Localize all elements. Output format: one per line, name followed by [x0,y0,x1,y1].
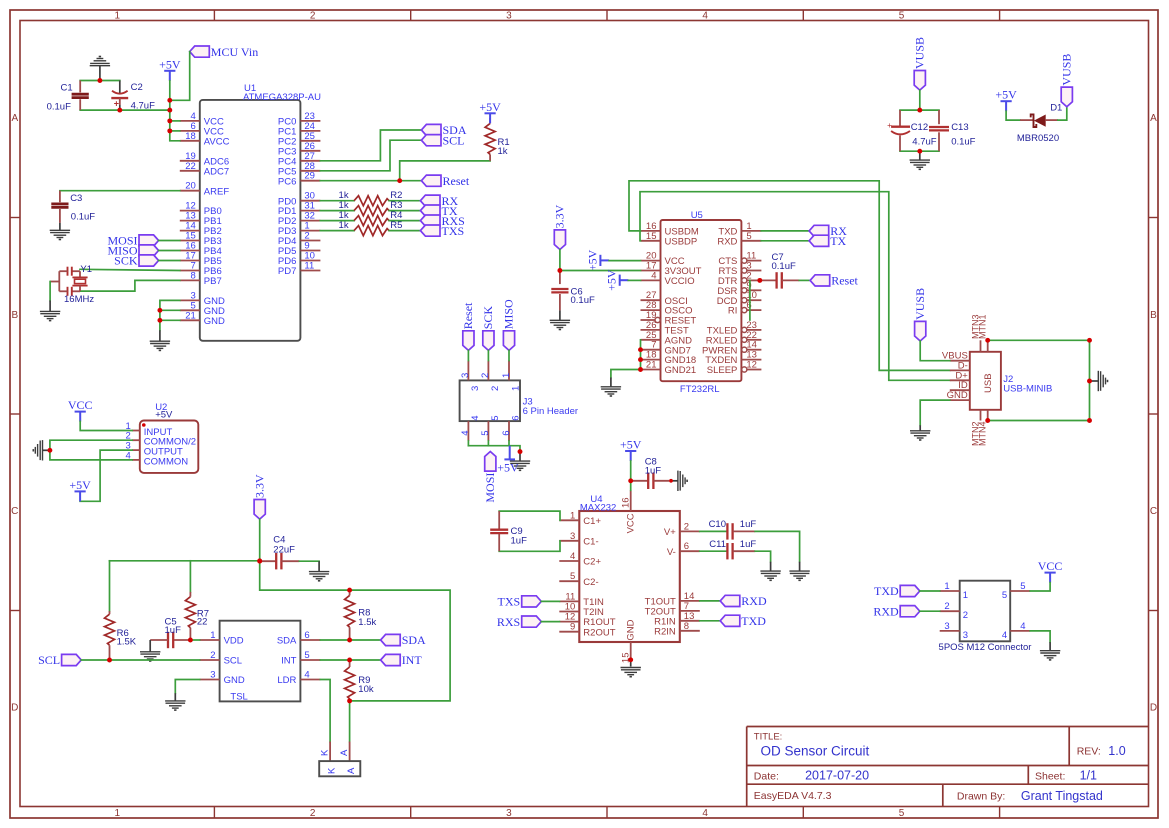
svg-text:3: 3 [963,630,968,641]
svg-text:TXS: TXS [442,224,465,238]
svg-text:R2IN: R2IN [654,626,676,637]
svg-text:INT: INT [281,656,297,667]
svg-text:4.7uF: 4.7uF [131,101,155,112]
svg-text:4: 4 [570,551,575,562]
svg-text:VCC: VCC [68,398,93,412]
svg-text:MTN1: MTN1 [978,315,988,340]
svg-text:1: 1 [501,373,512,378]
svg-text:+5V: +5V [585,249,599,271]
svg-text:AREF: AREF [204,186,230,197]
svg-text:AVCC: AVCC [204,136,230,147]
svg-text:1uF: 1uF [645,466,662,477]
svg-text:ADC7: ADC7 [204,166,229,177]
svg-text:1.5K: 1.5K [117,637,137,648]
svg-text:0.1uF: 0.1uF [71,212,95,223]
svg-text:C13: C13 [951,122,968,133]
svg-text:R2OUT: R2OUT [583,627,615,638]
svg-text:C11: C11 [709,539,726,550]
svg-text:PD7: PD7 [278,266,296,277]
svg-text:RXD: RXD [717,236,737,247]
svg-text:+5V: +5V [69,478,91,492]
svg-text:SCL: SCL [224,656,242,667]
svg-text:3: 3 [506,11,512,22]
svg-text:11: 11 [304,261,314,272]
svg-text:6: 6 [511,416,522,421]
svg-text:6: 6 [684,541,689,552]
svg-text:V+: V+ [664,527,676,538]
svg-text:+5V: +5V [995,88,1017,102]
svg-text:4: 4 [304,670,309,681]
svg-text:5: 5 [480,431,491,436]
svg-text:5: 5 [1002,590,1007,601]
svg-text:18: 18 [185,131,196,142]
svg-text:1uF: 1uF [511,536,528,547]
svg-text:4: 4 [702,808,708,819]
svg-text:COMMON: COMMON [144,456,188,467]
svg-text:5: 5 [570,571,575,582]
svg-text:A: A [11,113,18,124]
svg-text:3: 3 [470,386,481,391]
svg-text:5: 5 [899,808,905,819]
svg-text:Y1: Y1 [80,264,92,275]
svg-text:1uF: 1uF [740,519,757,530]
svg-text:1/1: 1/1 [1080,768,1097,782]
svg-text:+5V: +5V [155,410,173,421]
svg-text:4: 4 [702,11,708,22]
svg-text:4: 4 [1020,621,1025,632]
svg-text:VCC: VCC [1038,559,1063,573]
svg-text:V-: V- [667,547,676,558]
svg-text:SDA: SDA [402,633,426,647]
svg-text:0.1uF: 0.1uF [772,261,796,272]
svg-text:GND: GND [224,675,245,686]
svg-text:A: A [346,767,357,774]
svg-text:VUSB: VUSB [1059,54,1073,86]
svg-text:12: 12 [746,360,757,371]
svg-text:D1: D1 [1050,103,1062,114]
svg-text:C10: C10 [709,519,726,530]
svg-text:C1: C1 [61,82,73,93]
svg-text:8: 8 [684,621,689,632]
svg-text:K: K [326,767,337,774]
svg-text:SCK: SCK [481,306,495,330]
svg-text:C: C [1150,506,1157,517]
svg-text:4: 4 [651,270,656,281]
svg-text:2: 2 [963,610,968,621]
svg-text:1uF: 1uF [165,625,182,636]
svg-text:0.1uF: 0.1uF [47,101,71,112]
svg-text:PC6: PC6 [278,176,296,187]
svg-text:+5V: +5V [479,100,501,114]
svg-text:22: 22 [197,617,208,628]
svg-text:C1+: C1+ [583,516,601,527]
svg-text:+5V: +5V [159,57,181,71]
svg-text:SCL: SCL [38,653,60,667]
svg-text:Drawn By:: Drawn By: [957,791,1005,803]
svg-text:16: 16 [621,497,632,508]
svg-text:GND: GND [626,619,637,640]
svg-text:RXS: RXS [497,615,520,629]
svg-text:C1-: C1- [583,536,598,547]
svg-text:MISO: MISO [502,299,516,329]
svg-text:C2: C2 [131,82,143,93]
svg-text:MCU Vin: MCU Vin [211,45,258,59]
svg-text:B: B [11,310,18,321]
svg-text:U5: U5 [691,210,703,221]
svg-text:1: 1 [944,581,949,592]
svg-text:INT: INT [402,653,423,667]
svg-text:GND: GND [204,316,225,327]
svg-text:TXD: TXD [874,584,899,598]
svg-text:2: 2 [944,601,949,612]
svg-text:Reset: Reset [461,302,475,329]
svg-text:RXD: RXD [873,604,899,618]
svg-text:1: 1 [115,11,121,22]
svg-text:6: 6 [746,300,751,311]
svg-text:3: 3 [460,373,471,378]
svg-text:5: 5 [490,416,501,421]
svg-text:GND21: GND21 [665,365,697,376]
svg-text:22: 22 [185,161,196,172]
svg-text:C2-: C2- [583,577,598,588]
svg-text:D: D [11,703,18,714]
svg-text:ATMEGA328P-AU: ATMEGA328P-AU [243,92,321,103]
svg-text:TITLE:: TITLE: [754,732,783,743]
svg-text:RI: RI [728,306,738,317]
svg-text:MBR0520: MBR0520 [1017,133,1059,144]
svg-text:+5V: +5V [497,460,519,474]
svg-text:6: 6 [304,630,309,641]
svg-text:4: 4 [460,431,471,436]
svg-text:2: 2 [310,808,316,819]
svg-text:1: 1 [963,590,968,601]
svg-text:MOSI: MOSI [483,473,497,503]
svg-text:3.3V: 3.3V [553,204,567,228]
svg-text:10k: 10k [358,684,374,695]
svg-text:VCCIO: VCCIO [665,276,695,287]
svg-text:5: 5 [899,11,905,22]
svg-text:1: 1 [570,510,575,521]
svg-text:RXD: RXD [741,594,767,608]
svg-text:5: 5 [746,231,751,242]
svg-text:MTN4: MTN4 [978,422,988,447]
svg-text:3: 3 [944,621,949,632]
svg-text:K: K [320,749,331,756]
svg-text:29: 29 [304,171,315,182]
svg-text:2: 2 [684,521,689,532]
svg-text:4.7uF: 4.7uF [912,137,936,148]
svg-text:D: D [1150,703,1157,714]
svg-text:2: 2 [210,650,215,661]
svg-text:FT232RL: FT232RL [680,384,720,395]
svg-text:1: 1 [115,808,121,819]
svg-text:3: 3 [506,808,512,819]
svg-text:C: C [11,506,18,517]
svg-text:3: 3 [210,670,215,681]
svg-text:VCC: VCC [626,513,637,533]
svg-text:VDD: VDD [224,636,244,647]
svg-text:+5V: +5V [605,269,619,291]
svg-text:2: 2 [490,386,501,391]
svg-text:9: 9 [570,622,575,633]
svg-text:Date:: Date: [754,770,779,782]
svg-text:22uF: 22uF [273,545,295,556]
svg-text:5POS M12 Connector: 5POS M12 Connector [939,642,1032,653]
svg-text:3.3V: 3.3V [252,474,266,498]
svg-text:1k: 1k [498,146,508,157]
svg-text:Reset: Reset [831,274,858,288]
svg-text:SCK: SCK [114,254,138,268]
svg-text:20: 20 [185,181,196,192]
svg-text:2017-07-20: 2017-07-20 [805,768,869,782]
svg-text:4: 4 [470,416,481,421]
svg-text:TSL: TSL [230,692,247,703]
svg-text:+5V: +5V [620,438,642,452]
svg-text:LDR: LDR [277,675,296,686]
svg-text:SLEEP: SLEEP [707,365,738,376]
svg-text:1k: 1k [339,220,349,231]
svg-text:A: A [1150,113,1157,124]
svg-text:USB: USB [983,373,994,393]
svg-text:EasyEDA V4.7.3: EasyEDA V4.7.3 [754,790,832,802]
svg-text:C3: C3 [70,193,82,204]
svg-text:USBDP: USBDP [665,236,698,247]
svg-text:21: 21 [646,360,657,371]
svg-text:1.5k: 1.5k [358,617,376,628]
svg-text:8: 8 [191,270,196,281]
svg-text:5: 5 [304,650,309,661]
svg-text:15: 15 [646,231,657,242]
svg-text:MAX232: MAX232 [580,503,616,514]
svg-text:TXD: TXD [741,614,766,628]
svg-text:+: + [114,98,119,108]
svg-text:C2+: C2+ [583,557,601,568]
svg-text:SCL: SCL [443,133,465,147]
svg-text:6 Pin Header: 6 Pin Header [523,406,578,417]
svg-text:A: A [339,749,350,756]
svg-text:TXS: TXS [498,595,521,609]
svg-text:1: 1 [511,386,522,391]
svg-text:2: 2 [310,11,316,22]
svg-text:REV:: REV: [1077,746,1101,758]
svg-text:3: 3 [570,531,575,542]
svg-text:4: 4 [1002,630,1007,641]
svg-text:Sheet:: Sheet: [1035,770,1065,782]
svg-text:TX: TX [830,234,846,248]
svg-text:VUSB: VUSB [913,288,927,320]
svg-text:1.0: 1.0 [1108,744,1125,758]
svg-text:OD Sensor Circuit: OD Sensor Circuit [761,743,870,758]
svg-text:1uF: 1uF [740,539,757,550]
svg-text:Grant Tingstad: Grant Tingstad [1021,789,1103,803]
svg-text:R5: R5 [390,220,402,231]
svg-text:0.1uF: 0.1uF [951,137,975,148]
svg-text:C12: C12 [911,122,928,133]
svg-text:21: 21 [185,310,196,321]
svg-text:2: 2 [480,373,491,378]
svg-text:SDA: SDA [277,636,297,647]
svg-text:VUSB: VUSB [912,37,926,69]
svg-text:1: 1 [210,630,215,641]
svg-text:6: 6 [501,431,512,436]
svg-text:B: B [1150,310,1157,321]
svg-text:USB-MINIB: USB-MINIB [1003,384,1052,395]
svg-text:0.1uF: 0.1uF [571,295,595,306]
svg-text:5: 5 [1020,581,1025,592]
svg-text:PB7: PB7 [204,276,222,287]
svg-text:+: + [887,121,892,130]
svg-text:16MHz: 16MHz [64,294,94,305]
svg-text:Reset: Reset [443,174,470,188]
